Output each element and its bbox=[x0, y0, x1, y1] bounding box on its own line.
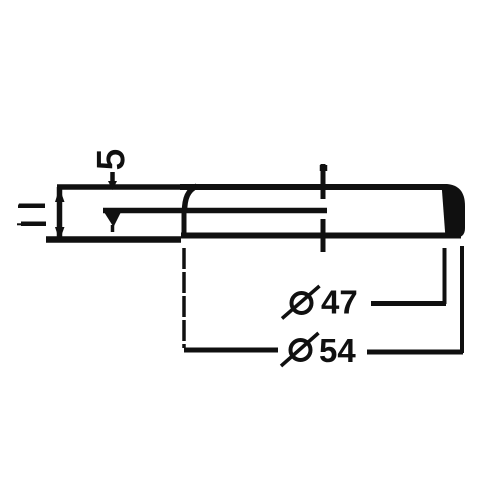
extension line below lens, left (dia 54) bbox=[182, 248, 186, 348]
arrow below rim line bbox=[104, 212, 121, 227]
diameter symbol for 54 bbox=[291, 340, 311, 360]
extension line below lens, right inner (dia 47) bbox=[443, 248, 447, 304]
svg-text:5: 5 bbox=[91, 149, 133, 170]
diameter symbol for 47 bbox=[292, 293, 312, 313]
lens bottom edge bbox=[181, 233, 461, 239]
vertical centerline upper segment bbox=[321, 164, 326, 199]
vertical dimension line (11) bbox=[57, 187, 63, 241]
arrowhead down (dim 11) bbox=[55, 227, 65, 241]
arrow tail below rim line bbox=[111, 225, 115, 232]
rim step line (5 mm reference edge) bbox=[103, 208, 327, 214]
svg-text:54: 54 bbox=[319, 332, 356, 369]
dimension text 11 (rotated, drawn as strokes) bbox=[17, 204, 46, 227]
arrowhead up (dim 11) bbox=[55, 188, 65, 202]
svg-text:47: 47 bbox=[321, 284, 358, 321]
lens top-left rounded corner bbox=[185, 186, 198, 212]
centerline top ink blob bbox=[320, 165, 328, 171]
lens left edge bbox=[182, 211, 187, 235]
left extension line, bottom (from lens bottom surface) bbox=[46, 236, 181, 243]
vertical centerline lower segment bbox=[321, 219, 326, 252]
lens body outline (side view) bbox=[180, 184, 445, 190]
dia 54 leader line right bbox=[367, 350, 463, 355]
dia 47 leader line bbox=[371, 301, 446, 306]
dia 54 leader line left bbox=[184, 348, 278, 353]
lens solid right rim section (filled) bbox=[442, 184, 466, 238]
left extension line, top (from lens top surface) bbox=[57, 184, 180, 190]
extension line below lens, right outer (dia 54) bbox=[460, 246, 464, 353]
arrowhead at top edge (dim 5) bbox=[108, 181, 117, 190]
arrow stub above top edge (dim 5) bbox=[110, 172, 115, 186]
